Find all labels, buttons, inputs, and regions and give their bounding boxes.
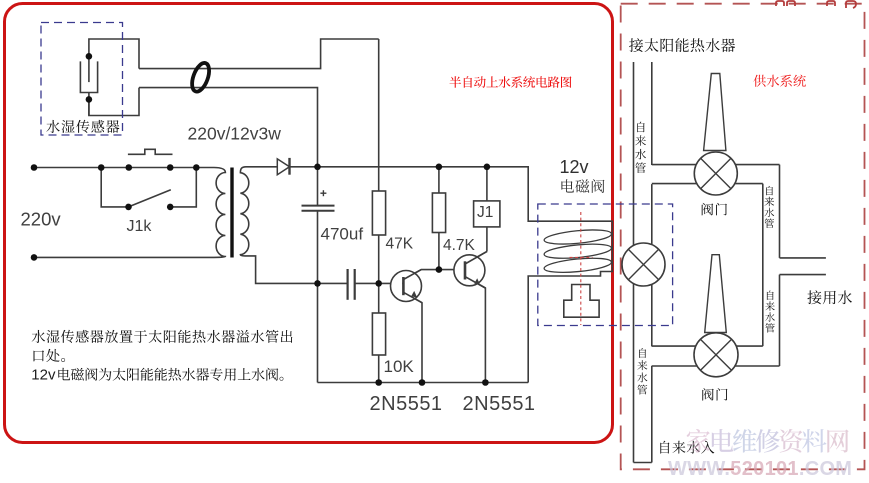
svg-text:WWW.520101.COM: WWW.520101.COM [668,458,852,478]
svg-text:47K: 47K [386,236,414,253]
svg-text:12v: 12v [560,157,589,177]
svg-text:12v: 12v [31,367,56,384]
svg-text:220v/12v3w: 220v/12v3w [188,123,282,143]
svg-text:2N5551: 2N5551 [370,393,443,415]
svg-text:10K: 10K [384,357,415,376]
svg-text:J1: J1 [477,204,493,221]
svg-text:4.7K: 4.7K [443,237,476,254]
svg-text:2N5551: 2N5551 [463,393,536,415]
svg-text:J1k: J1k [127,218,153,235]
svg-text:470uf: 470uf [321,225,364,244]
svg-text:220v: 220v [21,209,62,230]
